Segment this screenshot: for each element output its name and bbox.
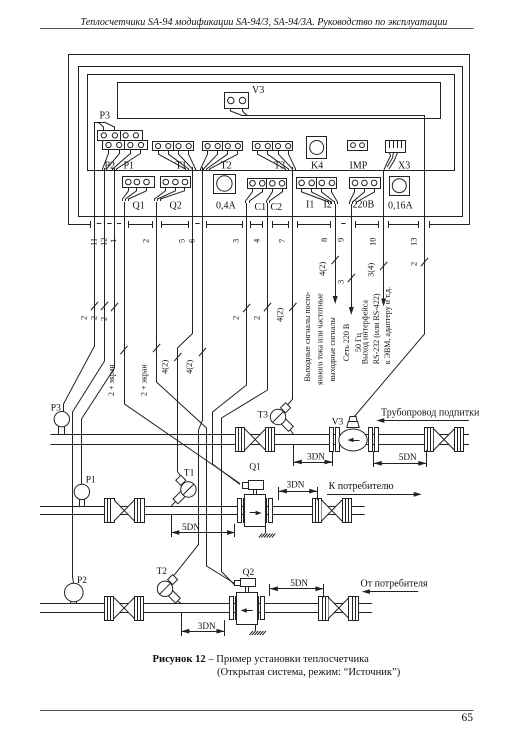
svg-text:K4: K4	[311, 161, 323, 172]
svg-text:P1: P1	[86, 476, 96, 486]
svg-text:P3: P3	[100, 111, 111, 122]
terminal block I1 I2	[297, 177, 338, 210]
svg-text:IMP: IMP	[350, 161, 368, 172]
svg-text:4(2): 4(2)	[184, 360, 194, 374]
svg-text:янного тока или частотные: янного тока или частотные	[316, 293, 325, 385]
terminal block V3 (flow sensor 3 input)	[225, 85, 265, 116]
enclosure box middle	[79, 67, 463, 217]
pressure sensor P3	[51, 404, 70, 435]
svg-text:2: 2	[79, 316, 89, 320]
svg-text:T3: T3	[274, 161, 285, 172]
svg-text:0,4A: 0,4A	[216, 201, 237, 212]
svg-text:9: 9	[335, 238, 345, 242]
svg-text:T1: T1	[184, 469, 195, 479]
svg-text:2: 2	[89, 316, 99, 320]
svg-text:(Открытая система, режим: “Ист: (Открытая система, режим: “Источник”)	[217, 667, 401, 678]
relay K4	[307, 137, 327, 172]
svg-text:4(2): 4(2)	[275, 308, 285, 322]
svg-text:65: 65	[462, 712, 474, 724]
valve on pipe 1 left	[236, 428, 275, 452]
pressure sensor P2	[65, 576, 88, 603]
pipe 3 return from consumer	[40, 604, 372, 613]
valve on pipe 2 left	[105, 499, 145, 523]
svg-text:2: 2	[408, 262, 418, 266]
svg-text:Рисунок 12 – Пример установки: Рисунок 12 – Пример установки теплосчетч…	[153, 654, 370, 665]
terminal block P2 P1	[103, 140, 148, 171]
svg-text:1: 1	[108, 239, 118, 243]
svg-text:C2: C2	[271, 202, 283, 213]
svg-text:3DN: 3DN	[198, 621, 216, 631]
terminal block T2	[201, 141, 243, 171]
svg-text:C1: C1	[255, 202, 267, 213]
svg-text:Выходные сигналы посто-: Выходные сигналы посто-	[303, 291, 312, 381]
svg-text:5: 5	[177, 239, 187, 243]
wire 2 (signal cable to Q2, 2 + shield)	[140, 202, 235, 584]
wire 8 (output signals, arrow out)	[303, 204, 339, 385]
wire cable P3 (2 wires)	[64, 122, 99, 412]
svg-text:2: 2	[141, 239, 151, 243]
svg-text:выходные сигналы: выходные сигналы	[328, 317, 337, 382]
svg-text:7: 7	[277, 239, 287, 243]
dimension 3DN on pipe 3	[181, 613, 224, 637]
page header text	[81, 17, 448, 28]
wire 13 (cable to V3 flow meter)	[242, 116, 428, 418]
svg-text:P2: P2	[105, 161, 116, 172]
svg-text:V3: V3	[252, 85, 264, 96]
svg-text:От потребителя: От потребителя	[361, 579, 428, 590]
dimension 3DN on pipe 1	[294, 444, 333, 466]
footer rule	[40, 710, 474, 712]
svg-text:11: 11	[89, 238, 99, 246]
svg-text:К потребителю: К потребителю	[329, 481, 395, 492]
svg-text:3: 3	[231, 239, 241, 243]
svg-text:2 + экран: 2 + экран	[107, 364, 116, 396]
svg-text:к ЭВМ, адаптеру и т.д.: к ЭВМ, адаптеру и т.д.	[383, 287, 392, 364]
terminal block T1	[153, 141, 196, 171]
enclosure box outer (broken bottom with cable entries)	[69, 55, 470, 229]
svg-text:Трубопровод подпитки: Трубопровод подпитки	[381, 408, 480, 419]
fuse 0,16A	[388, 177, 414, 212]
svg-text:3DN: 3DN	[307, 452, 325, 462]
svg-text:5DN: 5DN	[399, 452, 417, 462]
temperature sensor T3	[258, 403, 294, 435]
flow meter Q1	[238, 462, 273, 526]
terminal block C1 C2	[246, 179, 287, 214]
page number	[462, 712, 474, 724]
svg-text:0,16А: 0,16А	[388, 201, 414, 212]
valve on pipe 3 right	[319, 596, 359, 621]
label and arrow: makeup pipeline	[376, 408, 480, 423]
figure caption	[153, 654, 401, 678]
dimension 5DN on pipe 3	[270, 578, 324, 597]
svg-text:5DN: 5DN	[290, 578, 308, 588]
wire 11 (cable to P2)	[73, 168, 109, 585]
svg-text:T1: T1	[176, 161, 187, 172]
svg-text:4: 4	[252, 238, 262, 243]
svg-text:Q1: Q1	[249, 462, 261, 472]
wire 5 (cable to T1, 4 wires)	[160, 167, 193, 475]
wire 10 (RS-232 interface, arrow out)	[361, 171, 393, 364]
flow meter Q2	[230, 568, 265, 625]
svg-text:V3: V3	[332, 417, 344, 427]
svg-text:Q2: Q2	[170, 201, 182, 212]
temperature sensor T2	[157, 567, 182, 604]
ground symbol Q2	[249, 624, 266, 635]
svg-text:3(4): 3(4)	[365, 263, 375, 277]
svg-text:3DN: 3DN	[287, 480, 305, 490]
svg-text:5DN: 5DN	[182, 522, 200, 532]
label and arrow: to consumer	[327, 481, 422, 497]
svg-text:4(2): 4(2)	[160, 360, 170, 374]
svg-text:P1: P1	[124, 161, 135, 172]
svg-text:2: 2	[252, 316, 262, 320]
dimension 5DN on pipe 1	[374, 450, 427, 467]
display module rectangle	[118, 83, 441, 119]
pipe 2 supply to consumer	[40, 507, 365, 515]
terminal block P3	[95, 111, 143, 141]
svg-text:220В: 220В	[353, 200, 375, 211]
svg-text:Теплосчетчики SA-94 модификаци: Теплосчетчики SA-94 модификации SA-94/3,…	[81, 17, 448, 28]
svg-text:4(2): 4(2)	[317, 262, 327, 276]
svg-text:Выход интерфейса: Выход интерфейса	[361, 300, 370, 365]
pressure sensor P1	[74, 476, 96, 506]
terminal block T3	[253, 141, 296, 171]
svg-text:Q2: Q2	[243, 568, 255, 578]
svg-text:13: 13	[408, 238, 418, 247]
svg-text:X3: X3	[398, 161, 410, 172]
svg-text:2: 2	[99, 317, 109, 321]
terminal block Q1 (flow sensor 1)	[123, 177, 155, 212]
connector X3	[384, 140, 411, 172]
wire 9 (mains 220V, arrow out)	[335, 204, 363, 361]
svg-text:T2: T2	[157, 567, 168, 577]
svg-text:10: 10	[368, 238, 378, 247]
dimension 3DN on pipe 2	[279, 480, 318, 501]
svg-text:T2: T2	[221, 161, 232, 172]
label and arrow: from consumer	[361, 579, 428, 595]
svg-text:2: 2	[231, 316, 241, 320]
wire 3 (excitation cable to Q1)	[213, 203, 251, 485]
svg-text:Q1: Q1	[133, 201, 145, 212]
svg-text:I1: I1	[306, 200, 314, 211]
valve on pipe 1 right	[425, 428, 464, 452]
svg-text:I2: I2	[324, 200, 332, 211]
wire 6 (cable to T2, 4 wires)	[174, 167, 206, 575]
terminal block IMP	[348, 141, 368, 172]
svg-text:Сеть 220 В: Сеть 220 В	[342, 324, 351, 361]
svg-text:6: 6	[187, 239, 197, 243]
svg-text:2 + экран: 2 + экран	[140, 364, 149, 396]
wire 7 (cable to T3, 4 wires)	[275, 167, 297, 406]
valve on pipe 3 left	[105, 596, 144, 621]
wire 1 (signal cable to Q1, 2 + shield)	[107, 202, 240, 484]
flow meter V3	[330, 417, 379, 452]
valve on pipe 2 right	[313, 499, 352, 523]
header rule	[40, 28, 474, 30]
svg-text:T3: T3	[258, 411, 269, 421]
dimension 5DN on pipe 2	[171, 515, 235, 537]
terminal block 220V mains	[350, 178, 381, 211]
ground symbol Q1	[259, 527, 276, 538]
pipe 1 makeup pipeline	[50, 435, 469, 445]
wire 4 (excitation cable to Q2)	[222, 203, 272, 585]
svg-text:3: 3	[335, 280, 345, 284]
wire 12 (cable to P1)	[82, 168, 119, 484]
terminal block Q2 (flow sensor 2)	[155, 177, 191, 212]
fuse 0,4A	[214, 175, 237, 212]
svg-text:12: 12	[99, 238, 109, 247]
enclosure box inner	[88, 75, 455, 172]
temperature sensor T1	[171, 469, 196, 507]
svg-text:8: 8	[319, 238, 329, 242]
svg-text:RS-232 (или RS-422): RS-232 (или RS-422)	[372, 293, 381, 364]
